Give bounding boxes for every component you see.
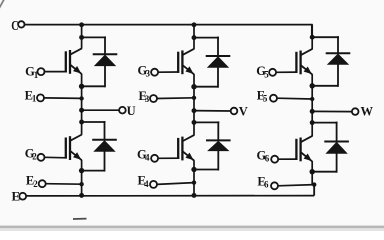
node leg 3 lower diode tap [310,120,315,125]
wire U lead [82,109,120,111]
svg-text:6: 6 [265,154,270,164]
terminal E3 [139,89,158,104]
node leg 2 top rail junction [192,22,197,27]
terminal V output [231,104,248,118]
node E6 tap [312,182,316,186]
diode D6 [312,122,349,173]
wire E1 lead [44,97,82,100]
svg-text:U: U [127,104,136,118]
diode D4 [194,121,231,170]
node leg 1 bottom rail junction [79,193,84,198]
wire E3 lead [157,97,194,100]
wire leg 3 collector drop [311,24,313,49]
transistor Q2 (leg 1 lower) [66,135,82,161]
node leg 3 lower emitter [310,169,315,174]
node leg 2 lower emitter [191,167,196,172]
wire leg 1 emitter drop [81,160,83,196]
terminal E4 [138,174,158,189]
transistor Q5 (leg 3 upper) [296,49,312,75]
wire V lead [194,110,231,112]
wire gate lead G1 [44,71,66,73]
node leg 2 output tap [192,108,197,113]
wire W lead [312,110,352,112]
node leg 1 lower emitter [79,168,84,173]
svg-text:6: 6 [264,180,269,190]
wire gate lead G2 [44,156,66,159]
terminal G5 gate pin [256,64,276,79]
node leg 2 bottom rail junction [192,193,197,198]
node leg 2 upper diode tap [192,35,197,40]
node E4 tap [192,180,196,184]
node leg 3 upper diode tap [310,35,315,40]
terminal G4 gate pin [137,147,158,162]
node leg 3 upper emitter [310,83,315,88]
wire leg 3 emitter drop [311,161,313,184]
node leg 2 upper emitter [191,84,196,89]
node E3 tap [192,96,196,100]
diode D3 [194,37,230,88]
diode D1 [82,36,118,87]
wire gate lead G6 [278,158,297,160]
wire gate lead G4 [158,157,179,159]
wire top rail C bus [25,24,313,26]
wire leg 2 collector drop [193,24,195,49]
node leg 2 lower diode tap [192,120,197,125]
node leg 1 top rail junction [79,22,84,27]
transistor Q6 (leg 3 lower) [296,136,312,162]
scan artifact dash [73,218,87,220]
terminal E2 [26,174,46,189]
wire leg 2 emitter drop [193,160,195,196]
terminal G3 gate pin [138,64,159,79]
terminal C (collector bus) [11,18,24,33]
node E5 tap [310,97,314,101]
diode D5 [312,36,350,87]
terminal U output [119,104,136,118]
node E2 tap [79,182,83,186]
wire gate lead G3 [158,71,179,73]
scan artifact corner mark [0,0,5,9]
diode D2 [82,121,117,172]
node leg 1 upper emitter [79,84,84,89]
svg-text:W: W [361,104,374,118]
svg-text:2: 2 [33,179,38,189]
svg-text:V: V [239,104,248,118]
transistor Q1 (leg 1 upper) [66,48,82,74]
wire E4 lead [157,183,194,185]
terminal G1 gate pin [25,65,44,80]
svg-text:3: 3 [145,94,150,104]
wire E6 lead [278,185,314,186]
wire leg 2 midpoint vertical [193,74,195,135]
node E1 tap [79,96,83,100]
terminal E5 [257,88,277,103]
terminal E6 [257,175,278,190]
node leg 1 upper diode tap [79,35,84,40]
wire E2 lead [46,183,82,186]
terminal E (emitter bus) [12,189,27,204]
wire leg 3 midpoint vertical [311,74,313,136]
wire leg 3 lower emitter to rail end [313,185,315,196]
node leg 3 output tap [310,109,315,114]
svg-text:2: 2 [32,152,37,162]
terminal W output [352,104,374,118]
svg-text:3: 3 [146,69,151,79]
terminal G6 gate pin [257,149,279,164]
transistor Q3 (leg 2 upper) [178,49,194,75]
node leg 1 lower diode tap [79,120,84,125]
svg-text:5: 5 [263,94,268,104]
svg-text:4: 4 [144,179,149,189]
transistor Q4 (leg 2 lower) [178,135,194,161]
wire gate lead G5 [276,71,297,73]
wire bottom rail E bus [26,195,314,197]
scan artifact bottom band [0,226,384,229]
svg-text:4: 4 [145,152,150,162]
terminal G2 gate pin [25,147,45,162]
wire leg 1 collector drop [81,24,83,48]
node leg 1 output tap [79,108,84,113]
terminal E1 [25,89,44,104]
wire leg 1 midpoint vertical [81,74,83,135]
wire E5 lead [277,97,312,100]
